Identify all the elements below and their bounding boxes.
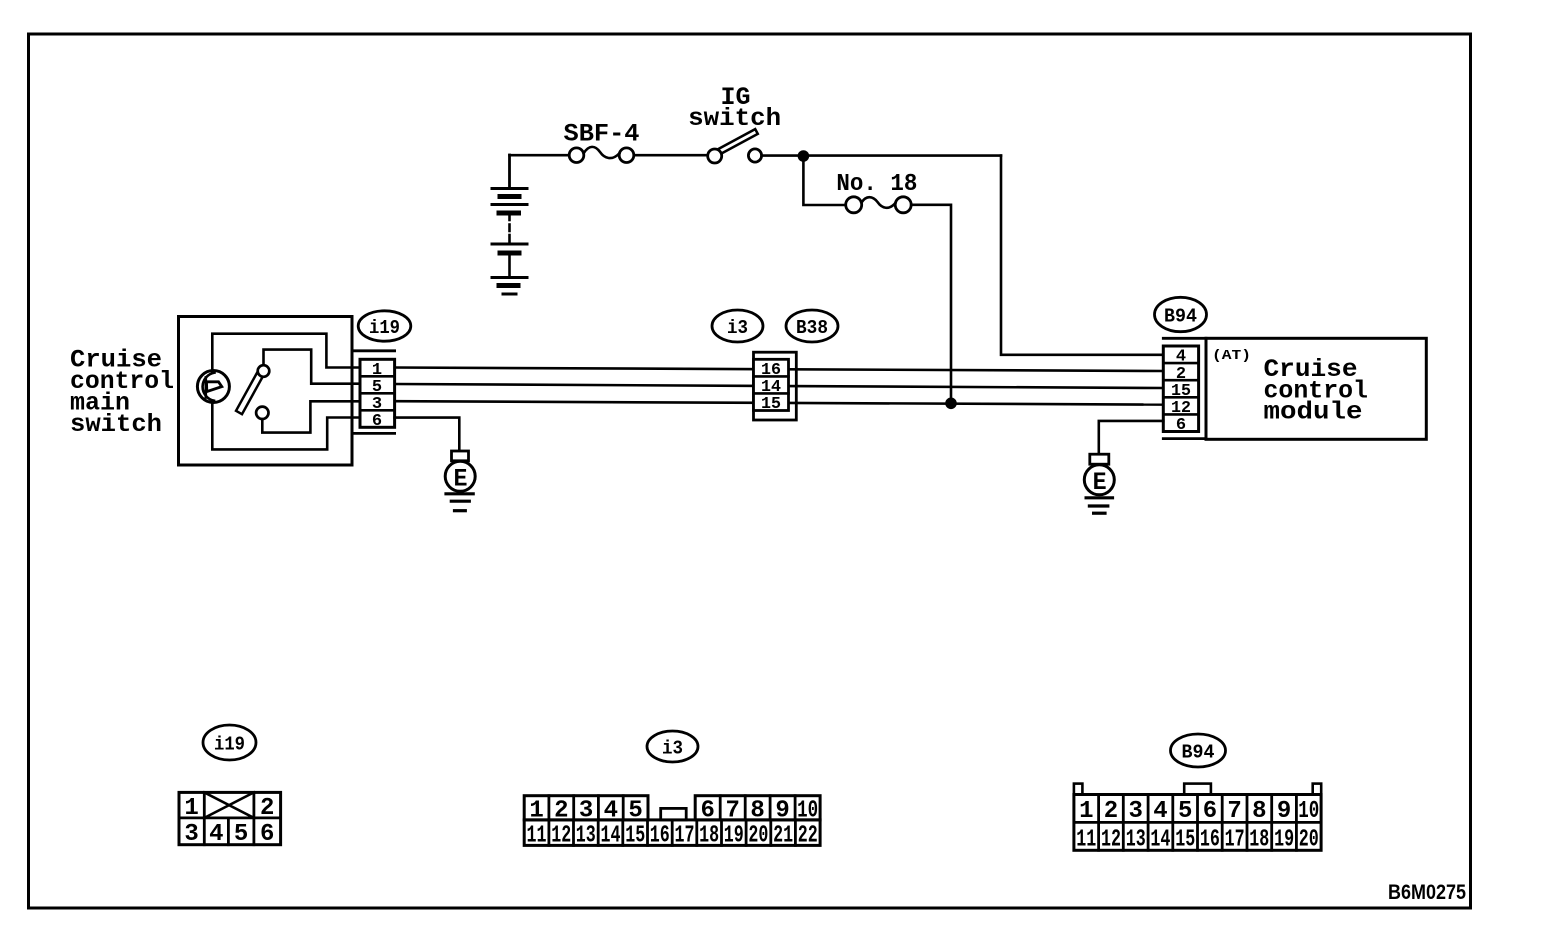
svg-text:8: 8 xyxy=(750,797,764,824)
wire row 1 : i19 pin 1 to B94 pin 2 xyxy=(395,368,1164,372)
svg-text:15: 15 xyxy=(761,395,781,414)
svg-text:15: 15 xyxy=(1175,827,1195,854)
wire i19 pin 6 to ground xyxy=(395,418,460,452)
battery xyxy=(492,155,527,294)
svg-text:i19: i19 xyxy=(369,317,400,339)
connector i3 pin view label oval xyxy=(647,731,698,762)
connector B94 pin view label oval xyxy=(1171,734,1226,767)
svg-text:1: 1 xyxy=(529,797,543,824)
svg-text:16: 16 xyxy=(650,823,670,850)
svg-text:21: 21 xyxy=(773,823,793,850)
svg-text:12: 12 xyxy=(551,823,571,850)
svg-text:18: 18 xyxy=(1249,827,1269,854)
svg-text:7: 7 xyxy=(1227,798,1241,825)
svg-text:12: 12 xyxy=(1101,827,1121,854)
ground E (left) xyxy=(445,451,475,511)
svg-text:i19: i19 xyxy=(214,734,245,756)
connector i19 pin view label oval xyxy=(203,725,256,760)
svg-text:B94: B94 xyxy=(1182,742,1215,764)
svg-text:11: 11 xyxy=(527,823,547,850)
connector i19 pin view grid xyxy=(179,792,281,848)
svg-text:1: 1 xyxy=(1079,798,1093,825)
wire lamp bottom to pin 6 xyxy=(212,403,360,450)
svg-text:6: 6 xyxy=(260,821,274,848)
svg-text:switch: switch xyxy=(688,104,781,133)
svg-text:6: 6 xyxy=(372,412,382,431)
svg-text:switch: switch xyxy=(70,410,162,439)
svg-text:6: 6 xyxy=(1203,798,1217,825)
svg-text:14: 14 xyxy=(601,823,621,850)
wire upper contact to pin 5 xyxy=(264,350,361,384)
svg-text:4: 4 xyxy=(1153,798,1167,825)
svg-text:10: 10 xyxy=(797,797,818,824)
svg-text:B94: B94 xyxy=(1164,306,1197,328)
svg-text:18: 18 xyxy=(699,823,719,850)
wire IG switch to corner xyxy=(762,154,1001,157)
svg-text:17: 17 xyxy=(1225,827,1245,854)
connector B94 pin block xyxy=(1163,338,1206,438)
svg-text:i3: i3 xyxy=(662,738,683,760)
junction on wire row 3 xyxy=(945,398,957,410)
wire junction down to fuse No. 18 xyxy=(803,156,845,205)
wire corner down to module pin 4 xyxy=(1001,156,1163,355)
svg-text:B6M0275: B6M0275 xyxy=(1388,881,1466,904)
wire row 3 : i19 pin 3 to B94 pin 12 xyxy=(395,401,1164,404)
svg-text:module: module xyxy=(1264,398,1363,427)
connector i19 label oval xyxy=(358,311,411,341)
svg-text:E: E xyxy=(1093,468,1107,497)
svg-text:19: 19 xyxy=(1274,827,1294,854)
svg-text:9: 9 xyxy=(775,797,789,824)
svg-text:3: 3 xyxy=(579,797,593,824)
wire lower contact to pin 3 xyxy=(262,401,360,432)
svg-text:2: 2 xyxy=(1104,798,1118,825)
connector B94 label oval xyxy=(1155,297,1207,331)
connector B94 pin view grid xyxy=(1074,784,1321,854)
svg-text:6: 6 xyxy=(1176,416,1186,435)
svg-text:2: 2 xyxy=(260,795,274,822)
svg-text:9: 9 xyxy=(1277,798,1291,825)
svg-text:E: E xyxy=(454,464,468,493)
ground E (right) xyxy=(1084,454,1114,513)
svg-text:SBF-4: SBF-4 xyxy=(564,120,640,149)
svg-text:8: 8 xyxy=(1252,798,1266,825)
IG switch xyxy=(688,83,781,163)
svg-text:14: 14 xyxy=(1150,827,1170,854)
svg-text:(AT): (AT) xyxy=(1212,348,1251,364)
svg-text:2: 2 xyxy=(554,797,568,824)
wire battery to fuse SBF-4 xyxy=(510,154,570,157)
svg-text:6: 6 xyxy=(700,797,714,824)
svg-text:7: 7 xyxy=(725,797,739,824)
wire fuse SBF-4 to IG switch xyxy=(634,154,708,157)
svg-text:13: 13 xyxy=(576,823,596,850)
wire B94 pin 6 to ground xyxy=(1099,421,1164,454)
wire lamp top to pin 1 xyxy=(212,334,360,372)
svg-text:5: 5 xyxy=(1178,798,1192,825)
svg-text:1: 1 xyxy=(184,795,198,822)
svg-text:3: 3 xyxy=(184,821,198,848)
svg-text:5: 5 xyxy=(234,821,248,848)
cruise control main switch box xyxy=(179,317,353,466)
svg-text:15: 15 xyxy=(625,823,645,850)
svg-text:16: 16 xyxy=(1200,827,1220,854)
fuse SBF-4 xyxy=(564,120,640,163)
svg-text:10: 10 xyxy=(1298,798,1319,825)
cruise control module box xyxy=(1206,338,1426,439)
connector i3 label oval xyxy=(712,310,763,342)
svg-text:20: 20 xyxy=(748,823,768,850)
svg-text:13: 13 xyxy=(1126,827,1146,854)
svg-text:17: 17 xyxy=(675,823,695,850)
svg-text:4: 4 xyxy=(604,797,618,824)
connector B38 label oval xyxy=(786,310,838,342)
indicator lamp xyxy=(197,371,229,403)
svg-text:5: 5 xyxy=(628,797,642,824)
svg-text:22: 22 xyxy=(798,823,818,850)
svg-text:19: 19 xyxy=(724,823,744,850)
svg-text:11: 11 xyxy=(1076,827,1096,854)
connector i3/B38 pin block xyxy=(754,352,797,420)
fuse No. 18 xyxy=(836,171,917,213)
wire row 2 : i19 pin 5 to B94 pin 15 xyxy=(395,384,1164,388)
svg-text:4: 4 xyxy=(209,821,223,848)
junction at IG switch output xyxy=(798,150,810,162)
connector i19 pin block xyxy=(352,351,395,434)
main switch contacts xyxy=(236,365,269,419)
svg-text:No. 18: No. 18 xyxy=(836,171,917,198)
svg-text:i3: i3 xyxy=(727,317,748,339)
svg-text:B38: B38 xyxy=(796,317,828,339)
cruise control main switch label xyxy=(70,346,174,440)
connector i3 pin view grid xyxy=(524,796,820,850)
wire fuse No. 18 to junction on row 3 xyxy=(911,205,951,403)
svg-text:3: 3 xyxy=(1128,798,1142,825)
svg-text:20: 20 xyxy=(1299,827,1319,854)
